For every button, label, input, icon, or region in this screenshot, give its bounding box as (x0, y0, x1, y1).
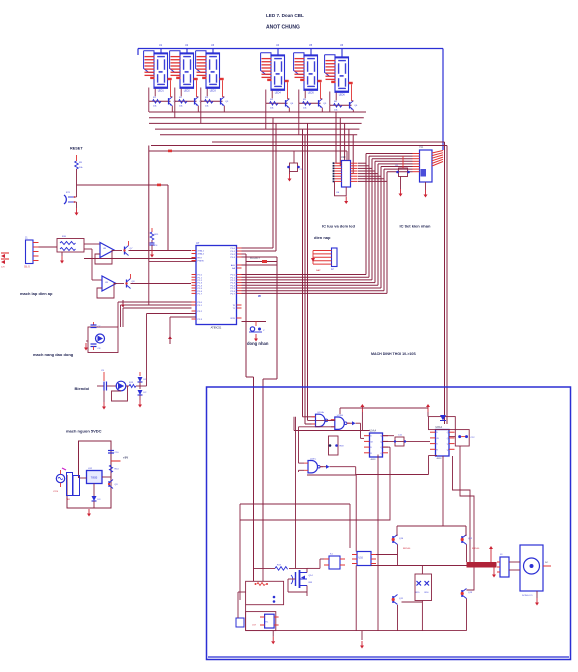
svg-text:INT0: INT0 (230, 318, 236, 320)
wire bus elbows to latch IC (336, 112, 353, 174)
relay K1 (324, 554, 345, 570)
title line 1 (266, 13, 304, 18)
text IC tiet kiem nhan (400, 224, 431, 229)
svg-text:LED6: LED6 (339, 93, 346, 96)
wire J1 net to op-amps (84, 244, 102, 280)
ground left of oscillator (84, 343, 88, 351)
svg-text:P2.6: P2.6 (231, 291, 236, 293)
svg-text:P2.7: P2.7 (231, 294, 236, 296)
push button reset (64, 185, 77, 208)
wire top blue bus (138, 49, 443, 151)
svg-text:MACH DINH THOI 10->10S: MACH DINH THOI 10->10S (371, 352, 416, 356)
ground under diodes (138, 400, 142, 408)
svg-text:P2.0: P2.0 (231, 275, 236, 277)
svg-text:LED4: LED4 (275, 91, 282, 94)
transistor Q9 (108, 478, 118, 489)
MOSFET Q14 (288, 568, 313, 592)
ground bottom center (360, 641, 364, 649)
ground under C9 (102, 402, 106, 410)
wire mid verticals (296, 455, 467, 631)
ground under opto (271, 631, 275, 645)
RC filter R11 C4 (150, 228, 160, 250)
svg-text:P2.1: P2.1 (231, 277, 236, 279)
svg-text:P0.0-P0.7: P0.0-P0.7 (250, 258, 261, 260)
IC U10 latch 74LS373 (333, 151, 358, 187)
transistor Q7 (123, 241, 133, 256)
text mach nguon 5VDC (66, 429, 102, 434)
svg-text:LED5: LED5 (308, 91, 315, 94)
svg-text:ALE: ALE (231, 264, 236, 267)
svg-text:LED 7. Doan CBL: LED 7. Doan CBL (266, 13, 304, 18)
7-segment display LED6 (325, 44, 353, 96)
wire latch feedback loop (335, 181, 347, 196)
RC network R18 (329, 436, 345, 455)
svg-text:IRF540: IRF540 (472, 548, 480, 550)
wire MCU data bundle (242, 154, 413, 294)
ground under latch (344, 197, 348, 205)
capacitor C5 block (149, 151, 347, 174)
svg-text:P3.3: P3.3 (198, 319, 203, 321)
svg-text:mach lap dien ap: mach lap dien ap (20, 291, 53, 296)
svg-text:V220: V220 (53, 491, 59, 493)
trimpot speaker symbol (242, 322, 267, 333)
MCU U7 AT89C51 (192, 241, 242, 330)
svg-text:P0.0: P0.0 (231, 248, 236, 250)
connector J3 (497, 554, 509, 577)
wire MCU to oscillator bundle (118, 302, 192, 327)
power arrow P2 (426, 404, 430, 417)
svg-text:P1.2: P1.2 (198, 280, 203, 282)
svg-text:U10: U10 (341, 156, 346, 159)
wire MCU loop to timer box (242, 254, 278, 581)
svg-text:mach nguon 5VDC: mach nguon 5VDC (66, 429, 102, 434)
wire right verticals to timer box (445, 142, 448, 424)
op-amp U8 voltage follower (95, 243, 122, 265)
svg-text:U16: U16 (359, 557, 364, 560)
wire driver-to-bus verticals (149, 101, 330, 135)
svg-text:LED2: LED2 (184, 89, 191, 92)
svg-text:P3.1: P3.1 (198, 305, 203, 307)
capacitor C11 (394, 435, 406, 447)
resistor R9 reset pull (70, 147, 83, 186)
svg-text:P3.2: P3.2 (198, 311, 203, 313)
svg-text:Biendoi: Biendoi (75, 386, 90, 391)
connector J1 (24, 237, 39, 269)
text bien doi (75, 386, 90, 391)
transistor Q13 (461, 589, 473, 631)
optocoupler EL817 (236, 612, 279, 631)
svg-text:P1.4: P1.4 (198, 285, 203, 287)
ground under C6 (399, 189, 403, 197)
motor DONG CO (509, 545, 551, 597)
svg-text:P1.0: P1.0 (198, 275, 203, 277)
svg-text:P0.2: P0.2 (231, 254, 236, 256)
svg-text:mach nang dao dong: mach nang dao dong (33, 352, 74, 357)
svg-text:4013: 4013 (371, 459, 377, 461)
op-amp bien doi (112, 381, 128, 401)
svg-text:W: W (258, 294, 261, 298)
svg-text:P1.3: P1.3 (198, 283, 203, 285)
svg-text:P0.3: P0.3 (231, 257, 236, 259)
text port label (250, 258, 261, 260)
power arrow P1 (360, 404, 364, 431)
svg-text:U11: U11 (419, 146, 424, 149)
wire left vertical from bus (84, 146, 196, 306)
wire bottom cluster (246, 555, 467, 641)
wire mid verticals x273 (242, 118, 277, 251)
driver transistor circuit Q4 (266, 82, 294, 112)
driver transistor circuit Q3 (201, 80, 229, 112)
svg-text:dong nhan: dong nhan (247, 341, 269, 346)
wire horizontal bus under displays (149, 112, 447, 146)
regulator U12 7805 (80, 468, 112, 496)
svg-text:P1.1: P1.1 (198, 277, 203, 279)
driver transistor circuit Q1 (149, 80, 177, 112)
svg-text:12V: 12V (1, 267, 5, 269)
text IC luu va dem led (322, 224, 355, 229)
text mach nang dao dong (33, 352, 74, 357)
svg-text:XTAL2: XTAL2 (198, 253, 205, 256)
svg-text:dien nap: dien nap (314, 235, 331, 240)
flip-flop U14 (364, 430, 388, 462)
IC U16 (352, 552, 376, 566)
ground under RC filter (150, 250, 154, 258)
svg-text:DC: DC (545, 562, 549, 564)
svg-text:IC luu va dem led: IC luu va dem led (322, 224, 355, 229)
svg-text:+5V: +5V (123, 456, 128, 460)
power arrow bar (489, 546, 496, 578)
wire reset to MCU (77, 184, 169, 251)
capacitor C6 block (395, 156, 410, 189)
resistor bridge R15 R16 (415, 574, 432, 601)
ground under motor (535, 591, 539, 606)
ground PSU (87, 509, 91, 517)
capacitor C12 (458, 435, 475, 439)
resistor R13 (126, 382, 147, 388)
junction mark on wire (168, 150, 172, 153)
svg-text:U15:A: U15:A (436, 426, 443, 429)
ground under U11 (424, 182, 428, 198)
power arrow mid (168, 336, 172, 344)
resistor network R10 (39, 236, 85, 256)
svg-text:RESET: RESET (70, 147, 83, 151)
power arrow oscillator (121, 300, 125, 308)
wire mid verticals x304 (303, 123, 335, 424)
svg-text:U14:A: U14:A (370, 430, 377, 433)
svg-text:7805: 7805 (91, 476, 98, 480)
svg-text:P0.1: P0.1 (231, 251, 236, 253)
7-segment display LED2 (170, 44, 198, 92)
ground under trimpot (254, 334, 258, 342)
svg-text:PSEN: PSEN (198, 261, 204, 263)
7-segment display LED3 (196, 44, 224, 92)
svg-text:RST: RST (198, 258, 203, 260)
wire MCU to bien doi (147, 314, 197, 387)
svg-text:ANOT CHUNG: ANOT CHUNG (266, 25, 300, 31)
oscillator op-amp block (86, 322, 118, 353)
text MACH DINH THOI (371, 352, 416, 356)
NAND gate G2 (331, 415, 350, 430)
svg-text:IRF540: IRF540 (403, 548, 411, 550)
connector left edge (1, 253, 9, 269)
wire opto connections (238, 559, 324, 618)
wire PSU loop (67, 441, 111, 508)
svg-text:NAP: NAP (316, 269, 321, 272)
transistor Q8 (125, 274, 135, 289)
svg-text:P2.3: P2.3 (231, 283, 236, 285)
NAND gate G3 (304, 458, 323, 473)
svg-text:P3.0: P3.0 (198, 302, 203, 304)
7-segment display LED5 (294, 44, 322, 94)
svg-text:P1.7: P1.7 (198, 294, 203, 296)
7-segment display LED1 (144, 44, 172, 92)
svg-text:DONG CO: DONG CO (522, 595, 533, 597)
svg-text:XTAL1: XTAL1 (198, 250, 205, 253)
driver transistor circuit Q6 (330, 84, 358, 112)
svg-text:SIL-5: SIL-5 (24, 266, 30, 269)
svg-text:P2.2: P2.2 (231, 280, 236, 282)
svg-text:OE: OE (336, 192, 340, 194)
svg-text:AT89C51: AT89C51 (211, 326, 222, 330)
svg-text:U13:A: U13:A (318, 411, 325, 414)
title line 2 (266, 25, 300, 31)
resistor R14 (109, 465, 119, 472)
text mach lap dien ap (20, 291, 53, 296)
wire gate cluster (240, 408, 474, 600)
transistor Q11 (392, 595, 423, 631)
svg-text:IC tiet kien nhan: IC tiet kien nhan (400, 224, 431, 229)
capacitor C9 (97, 370, 117, 402)
capacitor C10 (108, 451, 119, 455)
wire opamp2 to MCU (131, 283, 192, 285)
IC U11 driver (413, 146, 444, 183)
diode D3 (92, 496, 102, 508)
wire +5V output (111, 456, 128, 462)
svg-text:U13:C: U13:C (310, 458, 317, 460)
svg-text:U13:B: U13:B (337, 415, 344, 417)
svg-text:4013: 4013 (437, 458, 443, 460)
transistor Q12 (461, 526, 480, 562)
ground under reset button (75, 208, 79, 216)
text W marker (258, 294, 261, 298)
AC source V220 (53, 470, 65, 493)
flip-flop U15 (430, 426, 455, 460)
text dong nhan (247, 341, 269, 346)
wire power bar (467, 562, 497, 568)
svg-text:LED1: LED1 (158, 89, 165, 92)
NAND gate G1 (312, 411, 331, 427)
ground under C5 (288, 174, 292, 182)
svg-text:P2.4: P2.4 (231, 285, 236, 287)
op-amp U9 voltage follower (97, 276, 124, 298)
connector J2 dien nap (311, 248, 337, 272)
timer box outline (207, 387, 571, 660)
wire opto loop (246, 568, 284, 604)
ground under R10 (60, 256, 64, 264)
svg-text:P1.6: P1.6 (198, 291, 203, 293)
svg-text:P2.5: P2.5 (231, 288, 236, 290)
svg-text:U7: U7 (196, 241, 200, 245)
wire opamp1 to MCU (129, 250, 192, 252)
diodes D1 D2 (138, 372, 148, 400)
driver transistor circuit Q2 (175, 80, 203, 112)
transistor Q10 (392, 534, 411, 566)
driver transistor circuit Q5 (299, 82, 327, 112)
svg-text:LED3: LED3 (210, 89, 217, 92)
transformer TR1 (62, 468, 80, 501)
svg-text:P1.5: P1.5 (198, 288, 203, 290)
7-segment display LED4 (261, 44, 289, 94)
text dien nap (314, 235, 331, 240)
